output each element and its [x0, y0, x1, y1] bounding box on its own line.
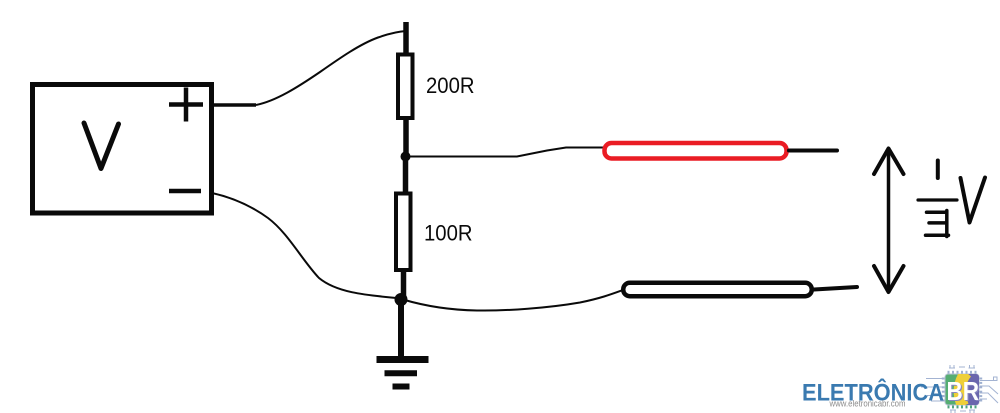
wire stem to ground [398, 300, 404, 357]
100R value label [424, 221, 473, 246]
svg-text:200R: 200R [426, 73, 475, 98]
wire from red probe right [789, 149, 837, 153]
node A junction dot [401, 152, 411, 162]
wire plus to resistor top [256, 31, 406, 105]
ground [377, 360, 429, 387]
svg-text:www.eletronicabr.com: www.eletronicabr.com [829, 399, 906, 409]
logo chip bottom pins [948, 405, 977, 409]
svg-text:BR: BR [947, 378, 980, 406]
plus terminal [169, 88, 203, 122]
wire stem between node A and R2 [403, 156, 409, 194]
logo chip body [945, 373, 980, 407]
logo url text [829, 399, 906, 409]
node B junction dot [395, 293, 408, 306]
label one third V : fraction bar [918, 198, 957, 201]
resistor R2 100R body [396, 194, 411, 271]
label one third V : letter V [961, 178, 986, 223]
resistor R1 200R body [398, 55, 413, 119]
svg-text:100R: 100R [424, 221, 473, 246]
logo ELETRONICA text [802, 379, 944, 407]
black probe P2 [623, 283, 812, 297]
wire top stem [403, 22, 409, 58]
voltage measurement arrow [874, 149, 904, 293]
logo circuit traces [921, 365, 998, 413]
minus terminal [169, 189, 201, 194]
wire from black probe right [814, 287, 857, 290]
red probe P1 [605, 143, 787, 159]
wire stem between R1 and node A [403, 118, 409, 160]
label one third V : digit 1 [936, 161, 940, 179]
wire from plus terminal lead [212, 103, 256, 107]
voltage source V1 box [33, 85, 212, 214]
logo BR text [947, 378, 981, 407]
logo chip pins [942, 371, 982, 402]
wire node A to red probe [405, 148, 604, 157]
200R value label [426, 73, 475, 98]
voltage source V label [84, 123, 119, 169]
wire stem between R2 and node B [401, 270, 407, 300]
wire minus terminal to node B [212, 193, 402, 299]
wire node B to black probe [403, 290, 623, 311]
label one third V : digit 3 [926, 211, 949, 237]
